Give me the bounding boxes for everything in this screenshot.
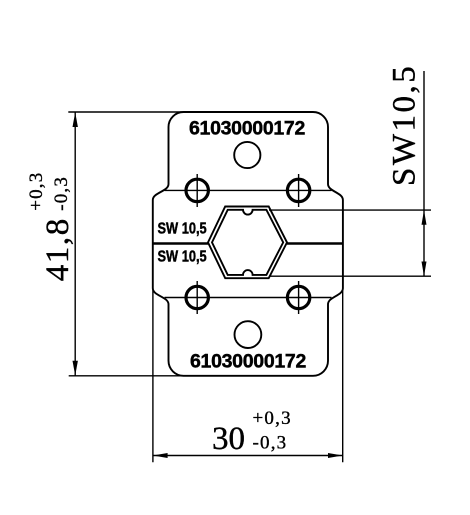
svg-text:-0,3: -0,3	[253, 433, 288, 454]
svg-text:+0,3: +0,3	[26, 172, 47, 211]
svg-text:SW 10,5: SW 10,5	[158, 220, 208, 237]
svg-text:30: 30	[212, 421, 245, 457]
svg-text:SW10,5: SW10,5	[386, 64, 422, 186]
svg-text:SW 10,5: SW 10,5	[158, 249, 208, 266]
svg-text:-0,3: -0,3	[51, 176, 72, 211]
svg-text:61030000172: 61030000172	[189, 117, 305, 139]
svg-text:+0,3: +0,3	[253, 408, 292, 429]
svg-text:61030000172: 61030000172	[190, 350, 306, 372]
svg-text:41,8: 41,8	[40, 217, 76, 281]
